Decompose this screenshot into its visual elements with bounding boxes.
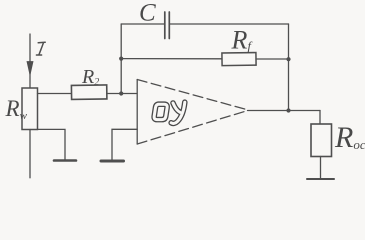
wire input horizontal to R2	[38, 93, 72, 95]
wire Rw bottom to ground	[38, 129, 66, 159]
svg-text:C: C	[139, 0, 156, 27]
capacitor C	[165, 12, 170, 39]
wire Roc to ground	[320, 157, 322, 179]
node inverting input	[119, 91, 123, 95]
node R1 right	[286, 57, 290, 61]
ground	[54, 159, 76, 162]
wire feedback vertical left	[120, 24, 122, 94]
node R1 tap	[119, 57, 123, 61]
wire right vertical	[288, 24, 290, 111]
resistor Rw	[22, 88, 38, 130]
current arrow I	[27, 62, 33, 76]
ground	[307, 178, 334, 180]
resistor Roc	[311, 124, 332, 157]
resistor R1	[222, 53, 256, 66]
wire R1 to right vertical	[256, 58, 289, 60]
wire R2 to inverting input	[107, 93, 137, 95]
op-amp label OY hollow letters	[154, 102, 185, 123]
op-amp U1	[137, 80, 247, 145]
node output	[286, 108, 290, 112]
wire R1 line left	[121, 58, 222, 60]
wire below Rw	[29, 130, 31, 178]
wire output	[248, 110, 321, 112]
ground	[101, 160, 124, 163]
wire top to capacitor	[121, 23, 164, 25]
wire input current vertical	[29, 34, 31, 88]
label I	[36, 42, 45, 55]
wire capacitor to right	[170, 23, 288, 25]
resistor R2	[71, 85, 106, 99]
wire down to Roc	[319, 111, 321, 125]
wire noninverting input	[112, 129, 137, 160]
